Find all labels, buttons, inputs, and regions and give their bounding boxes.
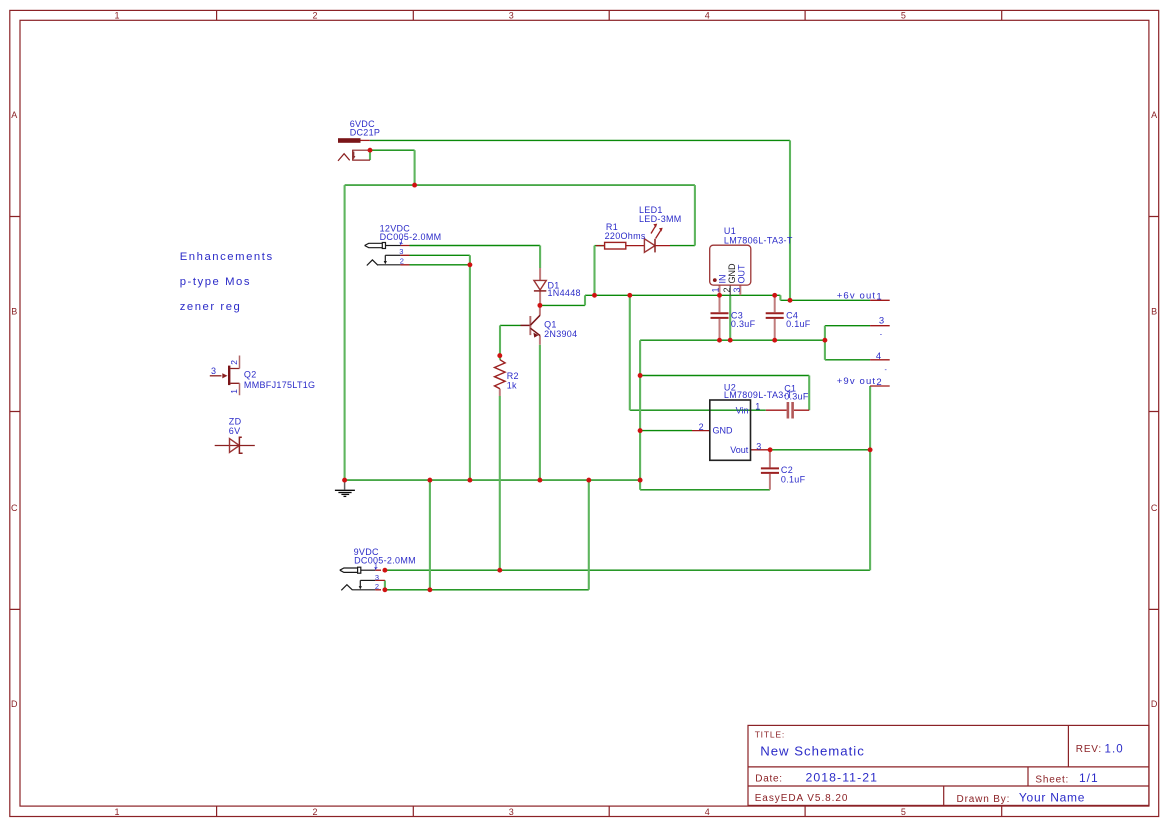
svg-text:DC21P: DC21P: [350, 128, 381, 138]
svg-text:3: 3: [211, 366, 216, 376]
svg-text:1: 1: [399, 237, 403, 246]
svg-text:DC005-2.0MM: DC005-2.0MM: [380, 232, 442, 242]
svg-text:B: B: [1151, 307, 1157, 317]
svg-text:TITLE:: TITLE:: [755, 730, 785, 740]
svg-text:2: 2: [876, 377, 882, 388]
svg-text:+6v out: +6v out: [837, 290, 876, 301]
svg-text:3: 3: [509, 11, 514, 21]
svg-text:D: D: [1151, 699, 1158, 709]
svg-text:2: 2: [312, 807, 317, 817]
svg-text:OUT: OUT: [737, 264, 747, 284]
svg-text:2018-11-21: 2018-11-21: [806, 770, 879, 784]
svg-text:3: 3: [756, 441, 761, 451]
svg-text:Vout: Vout: [730, 445, 749, 455]
svg-text:1: 1: [229, 389, 239, 394]
svg-text:zener reg: zener reg: [180, 301, 242, 313]
svg-text:New Schematic: New Schematic: [760, 744, 865, 759]
svg-text:3: 3: [399, 247, 403, 256]
svg-text:ZD: ZD: [229, 417, 242, 427]
svg-text:A: A: [11, 110, 17, 120]
svg-text:0.1uF: 0.1uF: [786, 319, 811, 329]
svg-text:R2: R2: [507, 371, 519, 381]
svg-text:0.1uF: 0.1uF: [781, 475, 806, 485]
svg-text:DC005-2.0MM: DC005-2.0MM: [354, 556, 416, 566]
svg-text:5: 5: [901, 11, 906, 21]
svg-text:4: 4: [705, 807, 710, 817]
svg-text:1: 1: [114, 11, 119, 21]
svg-text:p-type Mos: p-type Mos: [180, 276, 251, 288]
svg-text:LM7809L-TA3-T: LM7809L-TA3-T: [724, 390, 793, 400]
svg-text:Enhancements: Enhancements: [180, 251, 274, 263]
svg-text:Drawn By:: Drawn By:: [957, 794, 1011, 805]
svg-text:1: 1: [755, 402, 760, 412]
svg-text:2: 2: [312, 11, 317, 21]
svg-text:3: 3: [732, 287, 742, 292]
svg-text:2: 2: [699, 422, 704, 432]
svg-text:IN: IN: [717, 275, 727, 284]
svg-text:GND: GND: [713, 425, 734, 435]
svg-text:+9v out: +9v out: [837, 376, 876, 387]
svg-text:0.3uF: 0.3uF: [784, 391, 809, 401]
svg-text:4: 4: [876, 351, 882, 362]
svg-text:220Ohms: 220Ohms: [605, 231, 646, 241]
svg-text:D: D: [11, 699, 18, 709]
svg-text:1: 1: [876, 291, 882, 302]
svg-text:4: 4: [705, 11, 710, 21]
svg-text:REV:: REV:: [1076, 744, 1102, 755]
svg-text:2: 2: [375, 582, 379, 591]
svg-text:C: C: [1151, 503, 1158, 513]
svg-text:6V: 6V: [229, 426, 241, 436]
svg-text:Sheet:: Sheet:: [1035, 774, 1069, 785]
svg-text:1.0: 1.0: [1105, 744, 1124, 756]
svg-text:1/1: 1/1: [1079, 771, 1099, 785]
svg-text:LM7806L-TA3-T: LM7806L-TA3-T: [724, 236, 793, 246]
svg-text:2: 2: [400, 256, 404, 265]
svg-text:2: 2: [722, 287, 732, 292]
svg-text:Date:: Date:: [755, 773, 782, 784]
svg-text:A: A: [1151, 110, 1157, 120]
svg-text:C: C: [11, 503, 18, 513]
svg-text:C2: C2: [781, 465, 793, 475]
svg-text:2N3904: 2N3904: [544, 329, 577, 339]
svg-text:B: B: [11, 307, 17, 317]
svg-text:5: 5: [901, 807, 906, 817]
svg-text:EasyEDA V5.8.20: EasyEDA V5.8.20: [755, 793, 849, 804]
svg-text:0.3uF: 0.3uF: [731, 319, 756, 329]
svg-text:3: 3: [375, 573, 379, 582]
svg-text:Your Name: Your Name: [1019, 790, 1085, 804]
svg-text:3: 3: [879, 316, 885, 327]
svg-text:1k: 1k: [507, 380, 517, 390]
svg-text:2: 2: [229, 360, 239, 365]
svg-text:1: 1: [114, 807, 119, 817]
svg-text:1N4448: 1N4448: [548, 288, 581, 298]
svg-text:LED-3MM: LED-3MM: [639, 214, 682, 224]
svg-text:Q2: Q2: [244, 370, 257, 380]
svg-text:Vin: Vin: [736, 405, 749, 415]
svg-text:3: 3: [509, 807, 514, 817]
svg-text:1: 1: [710, 287, 720, 292]
svg-text:MMBFJ175LT1G: MMBFJ175LT1G: [244, 380, 315, 390]
